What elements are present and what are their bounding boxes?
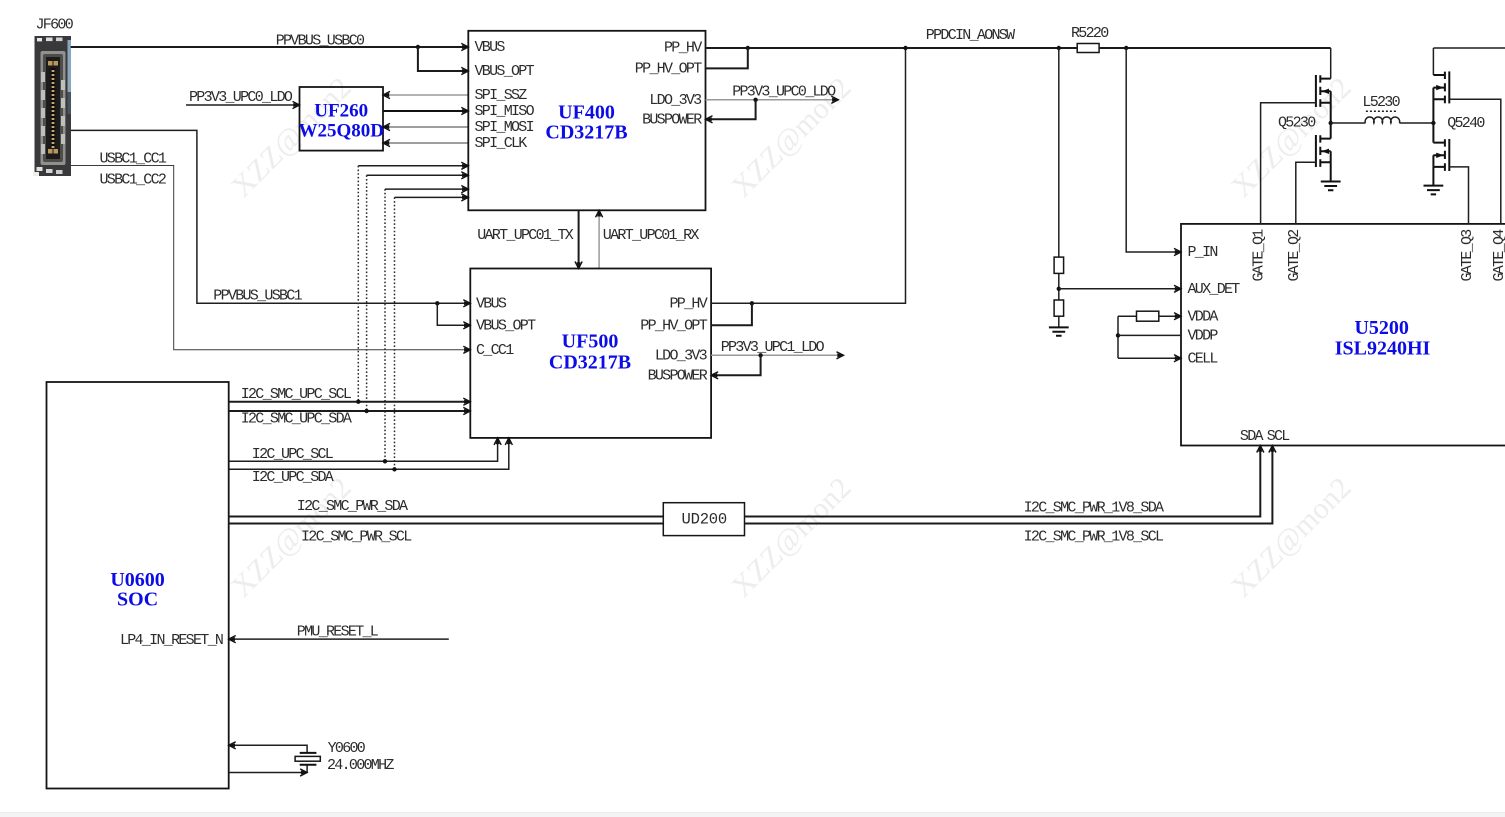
junction Q5230 switch node: [1329, 121, 1333, 125]
svg-text:USBC1_CC1: USBC1_CC1: [100, 150, 167, 167]
dotted riser I2C_SMC_UPC_SCL: [357, 166, 359, 402]
svg-text:Q5230: Q5230: [1278, 114, 1316, 131]
wire VDDP/CELL tie: [1117, 316, 1119, 358]
svg-text:PP_HV: PP_HV: [664, 40, 702, 57]
svg-text:I2C_SMC_UPC_SDA: I2C_SMC_UPC_SDA: [241, 411, 352, 428]
wire SPI_MISO: [383, 110, 468, 112]
svg-text:SDA: SDA: [1240, 428, 1264, 445]
ground Q5240: [1424, 167, 1444, 195]
svg-text:VBUS: VBUS: [475, 39, 506, 56]
svg-text:AUX_DET: AUX_DET: [1188, 281, 1241, 298]
svg-text:PP_HV_OPT: PP_HV_OPT: [640, 318, 707, 335]
dotted riser I2C_UPC_SCL: [384, 189, 386, 461]
svg-text:U5200: U5200: [1354, 317, 1408, 339]
wire GATE_Q1: [1261, 103, 1316, 224]
svg-text:UART_UPC01_TX: UART_UPC01_TX: [477, 227, 574, 244]
svg-text:CD3217B: CD3217B: [545, 121, 627, 143]
svg-text:Q5240: Q5240: [1447, 115, 1485, 132]
svg-text:SPI_SSZ: SPI_SSZ: [475, 87, 528, 104]
crystal Y0600: [295, 753, 320, 765]
wire I2C_SMC_PWR_1V8_SDA: [745, 446, 1261, 517]
wire GATE_Q2: [1296, 162, 1316, 224]
svg-text:VBUS: VBUS: [476, 296, 507, 313]
svg-text:PP_HV: PP_HV: [669, 296, 707, 313]
wire SPI_CLK: [383, 142, 468, 144]
svg-text:R5220: R5220: [1071, 25, 1109, 42]
wire BUSPOWER branch UF400: [706, 100, 756, 120]
svg-text:UF400: UF400: [558, 102, 615, 124]
junction PP_HV UF500: [750, 301, 754, 305]
junction Q5240 switch node: [1431, 121, 1435, 125]
wire PP_HV UF500 to rail: [711, 48, 905, 303]
inductor L5230: [1365, 117, 1399, 123]
wire PP_HV_OPT branch UF500: [711, 303, 752, 325]
wire GATE_Q4: [1449, 99, 1501, 224]
wire I2C_UPC_SCL: [229, 438, 498, 461]
svg-text:CELL: CELL: [1188, 350, 1219, 367]
svg-text:XZZ@mon2: XZZ@mon2: [1225, 71, 1357, 203]
wire I2C_SMC_UPC_SCL into UF400: [358, 165, 468, 167]
junction UPC_SDA: [392, 467, 396, 471]
wire VBUS_OPT branch: [418, 47, 468, 71]
wire PP_HV_OPT branch UF400: [706, 48, 748, 68]
svg-text:GATE_Q4: GATE_Q4: [1491, 229, 1505, 282]
junction PPVBUS_USBC1: [435, 301, 439, 305]
wire UART_UPC01_RX: [598, 210, 600, 268]
svg-text:GATE_Q3: GATE_Q3: [1459, 229, 1476, 282]
IC UF400 CD3217B: [468, 31, 705, 211]
junction LDO_3V3 UF400: [753, 98, 757, 102]
svg-text:C_CC1: C_CC1: [476, 342, 514, 359]
wire rail to Q5240 drain: [1432, 48, 1434, 75]
wire PPVBUS_USBC0: [71, 46, 469, 48]
wire P_IN: [1126, 48, 1181, 252]
wire SPI_SSZ: [383, 94, 468, 96]
wire I2C_SMC_PWR_1V8_SCL: [745, 446, 1273, 524]
wire PP3V3_UPC0_LDO into UF260: [186, 104, 300, 106]
svg-text:LDO_3V3: LDO_3V3: [649, 92, 702, 109]
svg-text:SOC: SOC: [117, 589, 158, 611]
wire I2C_UPC_SCL into UF400: [385, 188, 468, 190]
wire crystal top: [229, 745, 307, 753]
junction rail x1058: [1057, 46, 1061, 50]
junction VDDP: [1116, 333, 1120, 337]
wire I2C_SMC_PWR_SCL: [229, 523, 664, 525]
svg-text:SPI_MISO: SPI_MISO: [475, 103, 535, 120]
junction rail P_IN: [1124, 46, 1128, 50]
svg-text:I2C_SMC_PWR_SCL: I2C_SMC_PWR_SCL: [301, 528, 412, 545]
wire BUSPOWER branch UF500: [711, 355, 761, 375]
wire CELL: [1118, 357, 1181, 359]
svg-text:LP4_IN_RESET_N: LP4_IN_RESET_N: [120, 632, 223, 649]
junction SMC_UPC_SDA: [364, 409, 368, 413]
transistor Q5230 bottom FET: [1316, 123, 1331, 167]
svg-text:SPI_MOSI: SPI_MOSI: [475, 119, 534, 136]
wire I2C_SMC_UPC_SDA into UF400: [367, 174, 469, 176]
wire I2C_SMC_PWR_SDA: [229, 516, 664, 518]
svg-text:VDDA: VDDA: [1188, 308, 1219, 325]
wire VDDA feed: [1118, 315, 1181, 317]
svg-text:I2C_SMC_PWR_1V8_SDA: I2C_SMC_PWR_1V8_SDA: [1024, 500, 1164, 517]
wire LDO_3V3 out UF500: [711, 354, 843, 356]
junction rail x905: [903, 46, 907, 50]
svg-text:PPVBUS_USBC0: PPVBUS_USBC0: [276, 32, 365, 49]
svg-text:UART_UPC01_RX: UART_UPC01_RX: [603, 227, 700, 244]
wire I2C_UPC_SDA into UF400: [395, 196, 469, 198]
svg-text:PMU_RESET_L: PMU_RESET_L: [297, 623, 379, 640]
IC U5200 ISL9240HI: [1181, 224, 1505, 446]
ground divider: [1049, 327, 1069, 335]
wire LDO_3V3 out UF400: [706, 99, 839, 101]
svg-text:I2C_SMC_UPC_SCL: I2C_SMC_UPC_SCL: [241, 386, 352, 403]
wire UF500 VBUS_OPT branch: [437, 303, 470, 325]
svg-text:JF600: JF600: [36, 17, 74, 34]
svg-text:XZZ@mon2: XZZ@mon2: [725, 471, 857, 603]
IC UF500 CD3217B: [470, 269, 711, 438]
svg-text:BUSPOWER: BUSPOWER: [648, 368, 708, 385]
dotted riser I2C_SMC_UPC_SDA: [366, 175, 368, 411]
connector JF600: [33, 36, 71, 176]
wire SPI_MOSI: [383, 126, 468, 128]
wire inductor to Q5240: [1399, 122, 1433, 124]
resistor VDDA: [1137, 311, 1159, 321]
svg-text:VBUS_OPT: VBUS_OPT: [475, 63, 535, 80]
svg-text:XZZ@mon2: XZZ@mon2: [1225, 471, 1357, 603]
svg-text:UD200: UD200: [682, 511, 728, 529]
wire divider from rail: [1058, 48, 1060, 327]
svg-text:U0600: U0600: [110, 569, 164, 591]
svg-text:I2C_SMC_PWR_1V8_SCL: I2C_SMC_PWR_1V8_SCL: [1024, 528, 1164, 545]
ground Q5230: [1321, 162, 1341, 190]
bottom strip: [0, 813, 1505, 817]
wire PPVBUS_USBC1: [71, 130, 471, 303]
wire AUX_DET: [1059, 288, 1181, 290]
svg-text:PP_HV_OPT: PP_HV_OPT: [635, 61, 702, 78]
resistor divider bottom: [1054, 300, 1064, 316]
junction PP_HV UF400: [746, 46, 750, 50]
IC UF260: [300, 87, 384, 151]
wire output rail: [1433, 47, 1505, 49]
svg-text:Y0600: Y0600: [328, 740, 366, 757]
wire USBC1_CC1: [71, 166, 471, 350]
wire rail to Q5230 drain: [1330, 48, 1332, 79]
junction PPVBUS_USBC0: [416, 45, 420, 49]
svg-text:GATE_Q1: GATE_Q1: [1250, 229, 1267, 282]
dotted riser I2C_UPC_SDA: [394, 197, 396, 469]
svg-text:SPI_CLK: SPI_CLK: [475, 135, 528, 152]
svg-text:P_IN: P_IN: [1188, 244, 1218, 261]
svg-text:CD3217B: CD3217B: [549, 351, 631, 373]
svg-text:24.000MHZ: 24.000MHZ: [327, 757, 394, 774]
inductor L5230 dotted bar: [1366, 110, 1398, 112]
svg-text:UF500: UF500: [562, 331, 619, 353]
IC U0600 SOC: [47, 382, 229, 789]
junction SMC_UPC_SCL: [356, 400, 360, 404]
watermark: [225, 71, 1357, 603]
junction AUX_DET: [1057, 287, 1061, 291]
svg-text:L5230: L5230: [1362, 94, 1400, 111]
svg-text:I2C_UPC_SDA: I2C_UPC_SDA: [252, 469, 334, 486]
svg-text:USBC1_CC2: USBC1_CC2: [100, 171, 166, 188]
svg-text:PP3V3_UPC0_LDO: PP3V3_UPC0_LDO: [189, 89, 293, 106]
wire crystal bottom: [229, 765, 307, 773]
svg-text:PP3V3_UPC1_LDO: PP3V3_UPC1_LDO: [721, 339, 825, 356]
wire UART_UPC01_TX: [578, 210, 580, 268]
svg-text:SCL: SCL: [1267, 428, 1291, 445]
svg-text:I2C_UPC_SCL: I2C_UPC_SCL: [252, 446, 334, 463]
svg-text:GATE_Q2: GATE_Q2: [1286, 230, 1303, 282]
svg-text:BUSPOWER: BUSPOWER: [642, 111, 702, 128]
svg-text:UF260: UF260: [314, 101, 368, 122]
junction LDO_3V3 UF500: [758, 353, 762, 357]
svg-text:VBUS_OPT: VBUS_OPT: [476, 318, 536, 335]
wire I2C_SMC_UPC_SDA: [229, 410, 471, 412]
svg-text:PPDCIN_AONSW: PPDCIN_AONSW: [926, 27, 1015, 44]
wire switch node to inductor: [1331, 122, 1366, 124]
wire PP_HV rail PPDCIN_AONSW: [706, 47, 1331, 49]
svg-text:PP3V3_UPC0_LDO: PP3V3_UPC0_LDO: [732, 84, 836, 101]
transistor Q5240 bottom FET: [1433, 123, 1449, 171]
svg-text:VDDP: VDDP: [1188, 328, 1219, 345]
resistor R5220: [1077, 44, 1099, 53]
wire I2C_UPC_SDA: [229, 438, 509, 469]
wire VDDP: [1118, 334, 1181, 336]
svg-text:LDO_3V3: LDO_3V3: [655, 348, 708, 365]
transistor Q5230 top FET: [1316, 75, 1331, 123]
svg-text:PPVBUS_USBC1: PPVBUS_USBC1: [213, 288, 302, 305]
IC UD200: [663, 503, 744, 536]
transistor Q5240 top FET: [1433, 71, 1449, 123]
wire PMU_RESET_L: [229, 638, 449, 640]
resistor divider top: [1054, 257, 1064, 273]
wire GATE_Q3: [1449, 167, 1468, 224]
svg-text:W25Q80D: W25Q80D: [298, 121, 384, 142]
wire I2C_SMC_UPC_SCL: [229, 401, 471, 403]
svg-text:I2C_SMC_PWR_SDA: I2C_SMC_PWR_SDA: [297, 498, 408, 515]
svg-text:ISL9240HI: ISL9240HI: [1335, 338, 1431, 360]
junction UPC_SCL: [383, 459, 387, 463]
